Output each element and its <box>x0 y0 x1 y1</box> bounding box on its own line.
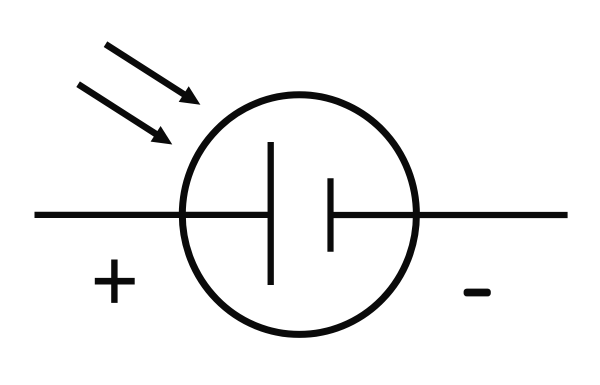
negative plate (short electrode) of solar cell <box>327 178 333 252</box>
solar cell BT1 body (circle outline) <box>182 95 416 335</box>
light arrow 2 (lower incident-light arrow) <box>78 84 172 144</box>
label: + (positive terminal) <box>95 260 135 303</box>
wire: right negative lead <box>330 212 568 218</box>
label: - (negative terminal) <box>464 289 491 297</box>
light arrow 1 (upper incident-light arrow) <box>106 44 201 105</box>
wire: left positive lead <box>35 212 272 218</box>
positive plate (long electrode) of solar cell <box>268 142 274 285</box>
